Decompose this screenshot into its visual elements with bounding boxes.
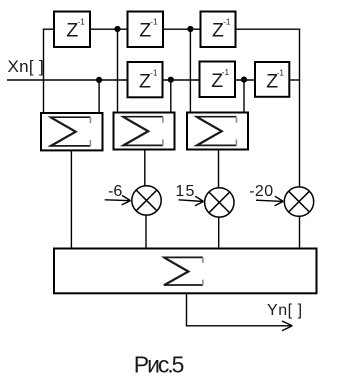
svg-text:-20: -20 — [249, 183, 273, 200]
svg-text:-1: -1 — [150, 18, 158, 27]
multiplier M3 X cross — [289, 191, 310, 212]
wire vertical v2 Xn tap down to S1 — [98, 80, 100, 113]
wire vertical v5 tap x[n-4] down to S3 — [189, 29, 191, 112]
wire vertical v6 tap x[n-2] down to S3 — [243, 80, 245, 112]
summer S3 box — [187, 113, 248, 150]
delay block Z1 (top row) — [54, 12, 90, 48]
coefficient arrow into M1 — [105, 195, 131, 205]
junction dot d2 on row1 after Z3 — [187, 26, 193, 32]
wire input Xn horizontal — [7, 79, 127, 81]
svg-text:-1: -1 — [222, 68, 230, 77]
wire S3 output down to M2 — [218, 150, 220, 188]
coefficient arrow into M2 — [179, 196, 204, 206]
delay block Z2 (top row) — [128, 12, 164, 48]
wire row2 seg b4-b5 — [164, 79, 200, 81]
junction dot d5 after Z5 — [241, 77, 247, 83]
summer S1 sigma ticks — [89, 117, 91, 146]
wire right bus vertical (tap x[n-3] down to M3) — [299, 29, 301, 187]
wire vertical v1 Z1 output down to S1 — [43, 29, 45, 113]
summer S2 sigma ticks — [162, 117, 164, 146]
junction dot d1 on row1 after Z2 — [114, 26, 120, 32]
wire output stub down from final summer — [186, 294, 188, 327]
summer S1 box — [41, 113, 103, 150]
multiplier M3 circle — [284, 187, 313, 216]
svg-text:Xn[ ]: Xn[ ] — [8, 57, 44, 76]
delay block Z6 (second row) — [255, 62, 289, 97]
svg-text:Рис.5: Рис.5 — [134, 352, 184, 378]
summer S2 sigma glyph — [123, 117, 163, 146]
wire S2 output down to M1 — [144, 150, 146, 186]
wire row1 seg b2-b3 — [164, 28, 201, 30]
final summer sigma glyph — [164, 257, 203, 285]
summer S3 sigma ticks — [235, 117, 237, 146]
wire row2 seg b6 to right bus — [290, 79, 300, 81]
wire row1 seg b1-b2 — [91, 28, 128, 30]
wire M3 output down to final summer — [299, 217, 301, 248]
svg-text:-1: -1 — [223, 18, 231, 27]
summer S1 sigma glyph — [50, 117, 90, 146]
svg-text:15: 15 — [175, 183, 195, 200]
wire vertical v4 tap x[n-1] down to S2 — [170, 80, 172, 112]
wire row2 seg b5-b6 — [236, 79, 255, 81]
multiplier M1 X cross — [136, 190, 157, 211]
wire top-row left stub into Z1 — [43, 28, 54, 30]
junction dot d3 on Xn line — [96, 77, 102, 83]
multiplier M2 circle — [205, 188, 234, 217]
wire M2 output down to final summer — [218, 218, 220, 249]
svg-text:-1: -1 — [277, 68, 285, 77]
summer S3 sigma glyph — [196, 117, 236, 146]
delay block Z3 (top row) — [201, 12, 236, 48]
delay block Z5 (second row) — [200, 62, 236, 98]
junction dot d4 after Z4 — [168, 77, 174, 83]
wire S1 output down to final summer — [70, 151, 72, 248]
final summer box — [54, 249, 317, 294]
wire vertical v3 tap x[n-5] down to S2 — [117, 29, 119, 112]
multiplier M1 circle — [132, 186, 161, 215]
svg-text:-1: -1 — [150, 68, 158, 77]
output arrowhead — [282, 321, 292, 331]
final summer sigma ticks — [202, 257, 204, 285]
multiplier M2 X cross — [209, 192, 230, 213]
summer S2 box — [114, 113, 175, 150]
wire row1 seg b3 to right corner — [236, 28, 300, 30]
svg-text:-1: -1 — [78, 18, 86, 27]
svg-text:Yn[ ]: Yn[ ] — [267, 302, 303, 319]
delay block Z4 (second row) — [128, 62, 163, 97]
wire output horizontal to Yn — [186, 325, 292, 327]
coefficient arrow into M3 — [256, 196, 283, 206]
svg-text:-6: -6 — [108, 183, 122, 200]
wire M1 output down to final summer — [145, 216, 147, 249]
